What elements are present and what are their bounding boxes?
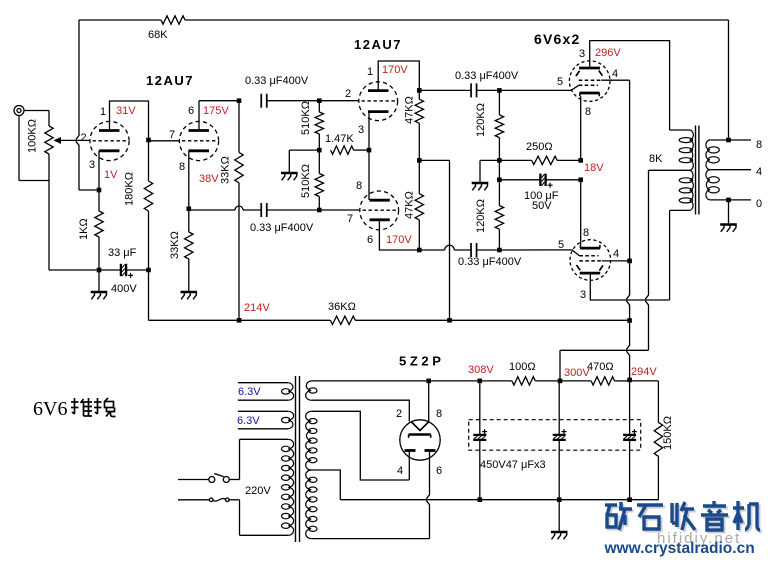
- svg-text:47KΩ: 47KΩ: [404, 96, 416, 124]
- svg-text:100Ω: 100Ω: [509, 361, 536, 373]
- svg-text:296V: 296V: [595, 47, 621, 59]
- svg-text:1.47K: 1.47K: [325, 133, 354, 145]
- svg-text:0: 0: [756, 198, 762, 210]
- svg-text:4: 4: [612, 68, 618, 80]
- svg-text:36KΩ: 36KΩ: [328, 301, 356, 313]
- svg-text:12AU7: 12AU7: [354, 37, 402, 52]
- svg-text:5Z2P: 5Z2P: [399, 354, 444, 369]
- svg-text:7: 7: [169, 129, 175, 141]
- svg-text:214V: 214V: [244, 302, 270, 314]
- svg-text:470Ω: 470Ω: [587, 361, 614, 373]
- svg-text:170V: 170V: [386, 234, 412, 246]
- svg-text:4: 4: [613, 248, 619, 260]
- svg-text:3: 3: [580, 289, 586, 301]
- svg-text:0.33 μF400V: 0.33 μF400V: [455, 70, 519, 82]
- svg-text:8: 8: [436, 408, 442, 420]
- svg-text:8: 8: [179, 161, 185, 173]
- svg-text:5: 5: [557, 76, 563, 88]
- svg-text:250Ω: 250Ω: [526, 141, 553, 153]
- svg-text:2: 2: [345, 88, 351, 100]
- svg-text:1: 1: [100, 106, 106, 118]
- svg-text:180KΩ: 180KΩ: [124, 172, 136, 206]
- svg-text:68K: 68K: [148, 29, 168, 41]
- svg-text:8: 8: [356, 180, 362, 192]
- svg-text:50V: 50V: [532, 200, 552, 212]
- svg-text:120KΩ: 120KΩ: [475, 199, 487, 233]
- svg-text:7: 7: [347, 213, 353, 225]
- svg-text:www.crystalradio.cn: www.crystalradio.cn: [604, 540, 755, 557]
- svg-text:8K: 8K: [649, 153, 663, 165]
- svg-text:100KΩ: 100KΩ: [27, 119, 39, 153]
- svg-text:47KΩ: 47KΩ: [404, 191, 416, 219]
- svg-text:12AU7: 12AU7: [146, 73, 194, 88]
- svg-text:2: 2: [396, 408, 402, 420]
- svg-text:450V47 μFx3: 450V47 μFx3: [480, 459, 546, 471]
- svg-text:6.3V: 6.3V: [237, 415, 260, 427]
- svg-text:5: 5: [558, 239, 564, 251]
- svg-text:0.33 μF400V: 0.33 μF400V: [245, 75, 309, 87]
- svg-text:120KΩ: 120KΩ: [475, 103, 487, 137]
- svg-text:1V: 1V: [104, 169, 118, 181]
- svg-text:4: 4: [397, 465, 403, 477]
- svg-text:170V: 170V: [382, 64, 408, 76]
- svg-text:18V: 18V: [584, 162, 604, 174]
- svg-text:510KΩ: 510KΩ: [300, 164, 312, 198]
- svg-text:6V6x2: 6V6x2: [534, 31, 580, 47]
- svg-text:0.33 μF400V: 0.33 μF400V: [250, 222, 314, 234]
- svg-text:33 μF: 33 μF: [108, 247, 137, 259]
- svg-text:175V: 175V: [203, 105, 229, 117]
- svg-text:8: 8: [585, 106, 591, 118]
- svg-text:6: 6: [367, 234, 373, 246]
- svg-text:0.33 μF400V: 0.33 μF400V: [458, 256, 522, 268]
- svg-text:8: 8: [583, 227, 589, 239]
- svg-text:220V: 220V: [245, 485, 271, 497]
- svg-text:510KΩ: 510KΩ: [300, 101, 312, 135]
- svg-text:6V6: 6V6: [33, 398, 67, 420]
- svg-text:308V: 308V: [468, 364, 494, 376]
- svg-text:6.3V: 6.3V: [238, 386, 261, 398]
- svg-text:400V: 400V: [111, 283, 137, 295]
- svg-text:38V: 38V: [199, 173, 219, 185]
- svg-text:6: 6: [188, 105, 194, 117]
- svg-text:33KΩ: 33KΩ: [169, 231, 181, 259]
- svg-text:31V: 31V: [116, 105, 136, 117]
- svg-text:8: 8: [756, 139, 762, 151]
- svg-text:150KΩ: 150KΩ: [662, 416, 674, 450]
- svg-text:1: 1: [367, 66, 373, 78]
- svg-text:3: 3: [89, 159, 95, 171]
- svg-text:2: 2: [81, 132, 87, 144]
- svg-text:33KΩ: 33KΩ: [220, 156, 232, 184]
- svg-text:4: 4: [756, 166, 762, 178]
- svg-text:1KΩ: 1KΩ: [78, 218, 90, 240]
- svg-text:3: 3: [358, 124, 364, 136]
- svg-text:3: 3: [579, 48, 585, 60]
- svg-text:294V: 294V: [631, 366, 657, 378]
- svg-text:6: 6: [436, 465, 442, 477]
